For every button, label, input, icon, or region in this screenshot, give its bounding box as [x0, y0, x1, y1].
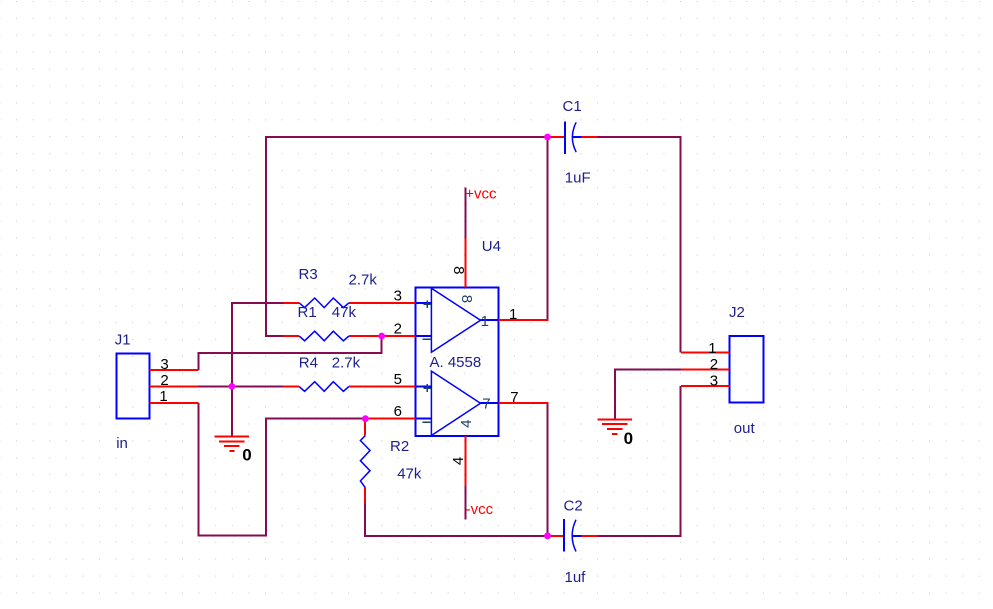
wire J1 pin3 to U4 pin2 node — [199, 336, 382, 370]
U4 minus mark pin6 — [423, 421, 431, 423]
svg-text:U4: U4 — [482, 238, 501, 255]
U4 pin 8 stub — [464, 238, 466, 287]
op-amp B triangle — [431, 371, 480, 435]
J2 pin 2 — [681, 368, 730, 370]
svg-text:4: 4 — [450, 457, 467, 465]
svg-text:8: 8 — [458, 295, 475, 303]
svg-text:7: 7 — [482, 396, 490, 413]
svg-text:3: 3 — [160, 356, 168, 373]
svg-text:out: out — [734, 420, 756, 437]
svg-text:1: 1 — [159, 388, 167, 405]
junction node C1 left — [544, 134, 551, 141]
wire R3 left to ground node — [232, 302, 284, 387]
svg-text:2: 2 — [394, 320, 402, 337]
svg-text:C1: C1 — [563, 98, 582, 115]
resistor R4 — [284, 382, 349, 392]
svg-text:R3: R3 — [299, 266, 318, 283]
wire top horizontal net U4.1/C1/R1 — [265, 136, 549, 138]
wire -vcc from pin4 — [464, 486, 466, 519]
wire J1 pin1 down and around to U4 pin6 — [198, 403, 366, 537]
U4 pin 7 output stub — [498, 402, 548, 404]
ground symbol left — [215, 436, 250, 451]
svg-text:3: 3 — [710, 373, 718, 390]
resistor R2 vertical — [360, 420, 370, 504]
connector J2 — [730, 336, 764, 403]
svg-text:1: 1 — [481, 313, 489, 330]
svg-text:4: 4 — [458, 420, 475, 428]
wire U4 pin1 up to top — [547, 137, 549, 320]
U4 minus mark pin2 — [423, 338, 431, 340]
svg-text:6: 6 — [394, 403, 402, 420]
svg-text:1uf: 1uf — [565, 569, 587, 586]
svg-text:0: 0 — [624, 429, 633, 448]
svg-text:47k: 47k — [397, 465, 422, 482]
svg-text:2.7k: 2.7k — [332, 355, 361, 372]
U4 pin 3 stub — [349, 302, 416, 304]
wire C1 right to J2 pin1 — [597, 136, 680, 353]
J1 pin 1 — [149, 402, 198, 404]
svg-text:8: 8 — [450, 266, 467, 274]
U4 plus mark pin3 — [423, 300, 431, 308]
wire C2 right to J2 pin3 — [598, 386, 682, 537]
capacitor C2 — [548, 519, 598, 552]
U4 pin 2 stub — [349, 335, 416, 337]
connector J1 — [117, 353, 150, 418]
svg-text:A. 4558: A. 4558 — [430, 354, 482, 371]
U4 pin 1 output stub — [498, 319, 548, 321]
svg-text:R1: R1 — [298, 304, 317, 321]
svg-text:2.7k: 2.7k — [349, 272, 378, 289]
resistor R1 — [284, 331, 349, 341]
wire J1 pin2 to R4 left — [199, 385, 284, 387]
wire J2 pin2 to ground — [615, 368, 681, 419]
svg-text:2: 2 — [710, 356, 718, 373]
U4 plus mark pin5 — [423, 384, 431, 392]
svg-text:2: 2 — [160, 372, 168, 389]
junction node J1 pin2 ground — [229, 383, 236, 390]
J1 pin 3 — [149, 369, 198, 371]
svg-text:in: in — [116, 435, 128, 452]
wire +vcc to pin8 — [464, 188, 466, 239]
svg-text:J2: J2 — [729, 304, 745, 321]
U4 pin 4 stub — [464, 436, 466, 486]
svg-text:J1: J1 — [115, 332, 131, 349]
U4 inner pin lines — [416, 303, 499, 419]
wire left vertical down to R1 — [266, 136, 284, 337]
svg-text:1: 1 — [509, 306, 517, 323]
capacitor C1 — [548, 121, 598, 153]
J2 pin 3 — [681, 385, 730, 387]
svg-text:3: 3 — [394, 287, 402, 304]
svg-text:+vcc: +vcc — [465, 186, 497, 203]
op-amp A triangle — [431, 288, 480, 352]
wire U4 pin7 down to C2 — [547, 403, 549, 536]
svg-text:R2: R2 — [390, 438, 409, 455]
junction node U4 pin2 — [378, 333, 385, 340]
svg-text:7: 7 — [510, 389, 518, 406]
junction node U4 pin6 — [362, 415, 369, 422]
svg-text:C2: C2 — [564, 498, 583, 515]
ground symbol right — [598, 419, 633, 434]
svg-text:R4: R4 — [299, 354, 318, 371]
junction node C2 left — [544, 532, 551, 539]
svg-text:1uF: 1uF — [565, 170, 591, 187]
svg-text:5: 5 — [394, 371, 402, 388]
svg-text:47k: 47k — [332, 304, 357, 321]
svg-text:1: 1 — [708, 340, 716, 357]
J1 pin 2 — [149, 385, 198, 387]
wire ground stem left — [231, 386, 233, 436]
svg-text:0: 0 — [242, 446, 251, 465]
svg-text:-vcc: -vcc — [466, 501, 494, 518]
U4 pin 5 stub — [349, 386, 416, 388]
op-amp U4 body — [416, 287, 499, 436]
J2 pin 1 — [681, 352, 730, 354]
resistor R3 — [284, 298, 349, 308]
wire R2 bottom to C2 node — [364, 503, 547, 536]
U4 pin 6 stub — [365, 418, 415, 420]
